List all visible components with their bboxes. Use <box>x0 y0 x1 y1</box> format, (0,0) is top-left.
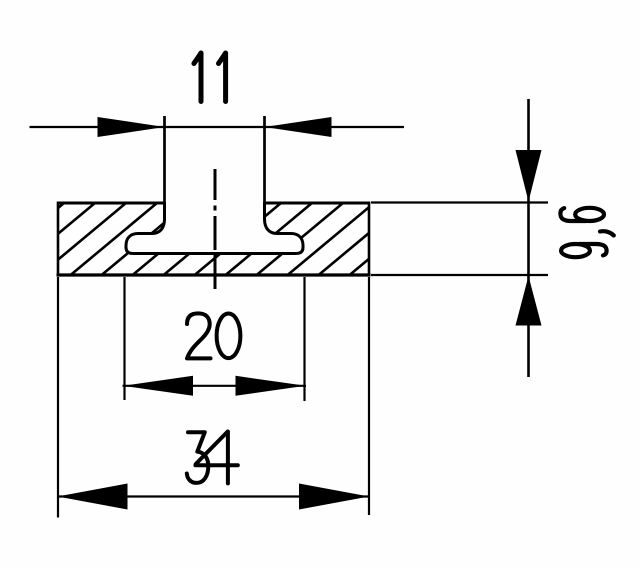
dimension 34: text <box>187 432 238 484</box>
dimension 11: dimension line <box>30 126 405 128</box>
dimension 20: left arrow <box>123 376 193 396</box>
plate right edge <box>368 202 371 277</box>
dimension 20: right arrow <box>236 376 306 396</box>
dimension 9,6: text (rotated) <box>560 208 613 257</box>
dimension 34: left arrow <box>58 484 128 510</box>
plate top-right edge <box>265 202 370 205</box>
dimension 9,6: dimension line <box>527 99 530 377</box>
dimension 20: dimension line <box>123 385 307 387</box>
dimension 9,6: bottom arrow <box>516 276 542 326</box>
plate top-left edge <box>58 202 165 205</box>
dimension 11: left arrow <box>98 117 165 137</box>
dimension 11: right arrow <box>265 117 332 137</box>
dimension 9,6: extension line top <box>371 201 548 203</box>
plate bottom edge <box>57 273 371 276</box>
T-slot profile contour (thick) <box>126 203 303 254</box>
dimension 9,6: extension line bottom <box>371 274 548 276</box>
dimension 20: extension line right <box>303 277 305 401</box>
dimension 9,6: top arrow <box>516 150 542 202</box>
hatched section area: plate minus T-slot <box>0 197 443 281</box>
dimension 34: extension line right <box>368 277 370 515</box>
centerline (dash-dot) <box>214 169 217 289</box>
dimension 11: text <box>194 53 226 102</box>
dimension 11: extension line right <box>263 116 266 203</box>
dimension 20: extension line left <box>123 277 125 400</box>
plate left edge <box>57 202 60 277</box>
dimension 11: extension line left <box>163 116 166 203</box>
dimension 20: text <box>187 313 240 358</box>
dimension 34: dimension line <box>58 495 370 497</box>
dimension 34: right arrow <box>299 484 369 510</box>
dimension 34: extension line left <box>57 277 59 518</box>
